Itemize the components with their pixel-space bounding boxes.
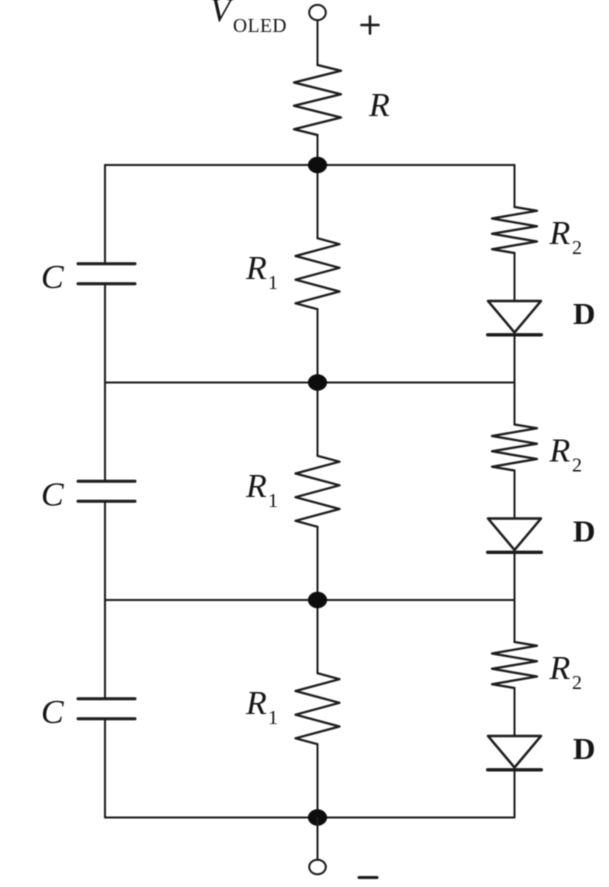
label R <box>368 87 390 124</box>
junction node 2 (dot) <box>308 374 327 390</box>
resistor R2 (3) <box>492 642 537 688</box>
wire rail 1 to resistor R1 (1) <box>317 165 319 238</box>
svg-text:R: R <box>245 250 267 287</box>
wire rail 1 to resistor R2 (1) <box>514 165 516 207</box>
wire rail 2 to resistor R1 (2) <box>317 383 319 456</box>
wire resistor R2 (1) to diode D (1) <box>514 253 516 301</box>
rail 2 (node 2 horizontal wire) <box>105 382 515 384</box>
rail 1 (node 1 horizontal wire) <box>105 164 515 166</box>
wire rail 2 to capacitor C2 top plate <box>104 383 106 482</box>
wire resistor R1 (1) to rail 2 <box>317 309 319 382</box>
capacitor C1 <box>78 264 135 284</box>
resistor R1 (2) <box>296 456 340 527</box>
wire rail 3 to resistor R1 (3) <box>317 600 319 673</box>
label R1 <box>245 468 278 512</box>
label R2 <box>549 215 583 259</box>
wire capacitor C3 bottom plate to rail 4 <box>104 719 106 818</box>
junction node 3 (dot) <box>308 592 327 608</box>
label D <box>573 731 595 766</box>
terminal - (bottom, open circle) <box>309 860 326 874</box>
wire resistor R1 (2) to rail 3 <box>317 527 319 600</box>
label R1 <box>245 685 278 729</box>
wire capacitor C1 bottom plate to rail 2 <box>104 284 106 383</box>
rail 4 (node 4 horizontal wire) <box>105 817 515 819</box>
svg-text:D: D <box>573 296 595 331</box>
capacitor C3 <box>78 699 135 719</box>
label D <box>573 296 595 331</box>
label C (capacitor C3) <box>41 694 64 731</box>
plus polarity mark <box>362 17 379 34</box>
junction node 4 (dot) <box>308 809 327 825</box>
wire terminal to resistor R <box>317 20 319 65</box>
label R2 <box>549 433 583 477</box>
svg-text:2: 2 <box>572 455 582 477</box>
svg-text:R: R <box>368 87 390 124</box>
label C (capacitor C1) <box>41 259 64 296</box>
svg-text:1: 1 <box>268 707 278 729</box>
wire diode D (3) to rail 4 <box>514 770 516 818</box>
label C (capacitor C2) <box>41 476 64 513</box>
wire rail 1 to capacitor C1 top plate <box>104 165 106 264</box>
wire rail 2 to resistor R2 (2) <box>514 383 516 425</box>
svg-text:2: 2 <box>572 672 582 694</box>
wire node 4 to bottom terminal <box>317 818 319 861</box>
wire resistor R2 (2) to diode D (2) <box>514 471 516 519</box>
resistor R1 (3) <box>296 673 340 744</box>
svg-text:D: D <box>573 514 595 549</box>
svg-text:R: R <box>549 433 571 470</box>
svg-text:1: 1 <box>268 272 278 294</box>
svg-text:2: 2 <box>572 237 582 259</box>
label D <box>573 514 595 549</box>
wire diode D (2) to rail 3 <box>514 552 516 600</box>
wire rail 3 to resistor R2 (3) <box>514 600 516 642</box>
resistor R1 (1) <box>296 238 340 309</box>
label R1 <box>245 250 278 294</box>
svg-text:R: R <box>245 685 267 722</box>
diode D (3) <box>488 736 542 770</box>
wire capacitor C2 bottom plate to rail 3 <box>104 501 106 600</box>
svg-text:V: V <box>210 0 235 29</box>
svg-text:C: C <box>41 259 64 296</box>
resistor R <box>294 65 341 135</box>
wire resistor R2 (3) to diode D (3) <box>514 688 516 736</box>
wire resistor R1 (3) to rail 4 <box>317 744 319 817</box>
svg-text:R: R <box>245 468 267 505</box>
svg-text:1: 1 <box>268 490 278 512</box>
rail 3 (node 3 horizontal wire) <box>105 599 515 601</box>
resistor R2 (1) <box>492 207 537 253</box>
terminal + (top, open circle) <box>309 5 326 20</box>
svg-text:C: C <box>41 694 64 731</box>
svg-text:D: D <box>573 731 595 766</box>
capacitor C2 <box>78 481 135 501</box>
wire resistor R to node 1 <box>317 135 319 165</box>
resistor R2 (2) <box>492 425 537 471</box>
diode D (1) <box>488 301 542 335</box>
svg-text:C: C <box>41 476 64 513</box>
wire diode D (1) to rail 2 <box>514 335 516 383</box>
svg-text:R: R <box>549 650 571 687</box>
label R2 <box>549 650 583 694</box>
svg-text:R: R <box>549 215 571 252</box>
diode D (2) <box>488 519 542 553</box>
label V_OLED <box>210 0 287 37</box>
minus polarity mark <box>359 876 377 879</box>
wire rail 3 to capacitor C3 top plate <box>104 600 106 699</box>
svg-text:OLED: OLED <box>233 16 287 37</box>
junction node 1 (dot) <box>308 157 327 173</box>
